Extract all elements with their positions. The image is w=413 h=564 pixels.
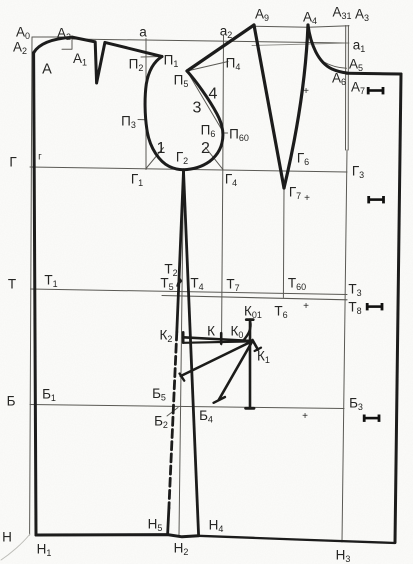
svg-text:Н: Н [2,530,12,545]
grain marker near G3 [367,196,385,203]
front center double vertical top second line [347,26,349,151]
hip line B [30,405,344,409]
svg-text:+: + [302,411,308,422]
grain marker near B3 [363,415,381,422]
side construction vertical G2-H2 [179,171,184,535]
right thick edge [395,74,401,543]
vertical under a [145,39,147,170]
back neck curve [34,37,72,53]
K1 stub [253,340,259,350]
back shoulder with dart [72,37,162,83]
front top edge A6 to right corner [347,72,401,76]
ray K2-K1 horizontal [183,337,252,341]
back center thick edge [34,53,36,535]
K tick bar [220,333,223,343]
waist notch on back side seam [177,278,182,286]
front center double vertical top [345,26,347,151]
thin line P5-P4 [187,62,228,72]
K01 vertical line [249,320,252,409]
svg-text:Б: Б [7,394,16,409]
ray end bar near B5 [180,374,185,381]
front side seam G2-H4 [184,171,199,536]
svg-text:Г: Г [9,155,17,170]
B2 pointer line [167,408,178,417]
lowered front waist line [162,296,347,300]
faint bottom-left pencil curve [1,534,30,560]
hem front thick [199,536,395,543]
svg-text:+: + [304,193,310,204]
front dart leg A9-G7 [254,25,284,188]
P2 horizontal tick [141,56,162,59]
a1 level thin line [252,43,349,46]
svg-text:+: + [303,86,309,97]
back side seam dashed middle [169,332,177,508]
svg-text:А: А [42,62,52,78]
thin rect A0-A2 [32,37,72,49]
ray end bar near B4 [214,397,225,403]
back side seam G2 to H5 solid top [177,171,184,332]
grain marker near A7 [367,87,385,94]
ray K2-K0 lower twin [183,341,252,342]
K1 end tick [255,348,261,351]
front armhole curve P5-P6-G2 [184,71,223,170]
back armhole curve P1-G2 [145,57,183,170]
thin line P5-P6 [187,71,222,130]
top construction line A0-a-a2-a1 [72,39,347,43]
svg-text:+: + [303,301,309,312]
grain marker near T8 [366,303,384,310]
front top thin line A9-A4-A31 [254,26,349,28]
bottom bar of vertical [246,407,254,410]
bisector 1 at G1 [146,148,164,169]
left thin vertical A0 down to H [30,37,32,535]
front neck curve A4-A6 [308,25,347,73]
bust apex vertical G7-T60 [282,189,285,298]
bisector 2 at G4 [206,148,223,170]
svg-text:4: 4 [209,86,218,103]
ray to B5 area [181,341,253,376]
back side seam solid bottom [168,508,169,535]
svg-text:К: К [207,324,215,339]
P60 tick [223,132,227,134]
K01 top bar [246,318,253,321]
svg-text:а: а [139,25,147,40]
vertical under a2 [222,35,224,345]
thin neck construction arc A5 [324,62,347,68]
front shoulder P5-A9 [187,25,254,71]
waist line T [31,289,348,295]
hem back thick [36,535,199,537]
P3 tick [138,119,145,121]
hook curve K0 [244,322,251,341]
ray to B4 area [219,341,253,400]
svg-text:2: 2 [201,140,210,157]
front dart leg A4-G7 [284,25,308,188]
chest line G [30,167,347,172]
K2 end bar [182,332,185,342]
front center vertical [342,150,347,542]
svg-text:г: г [38,152,42,163]
svg-text:1: 1 [157,140,166,157]
svg-text:3: 3 [193,99,202,116]
svg-text:Т: Т [8,277,16,292]
